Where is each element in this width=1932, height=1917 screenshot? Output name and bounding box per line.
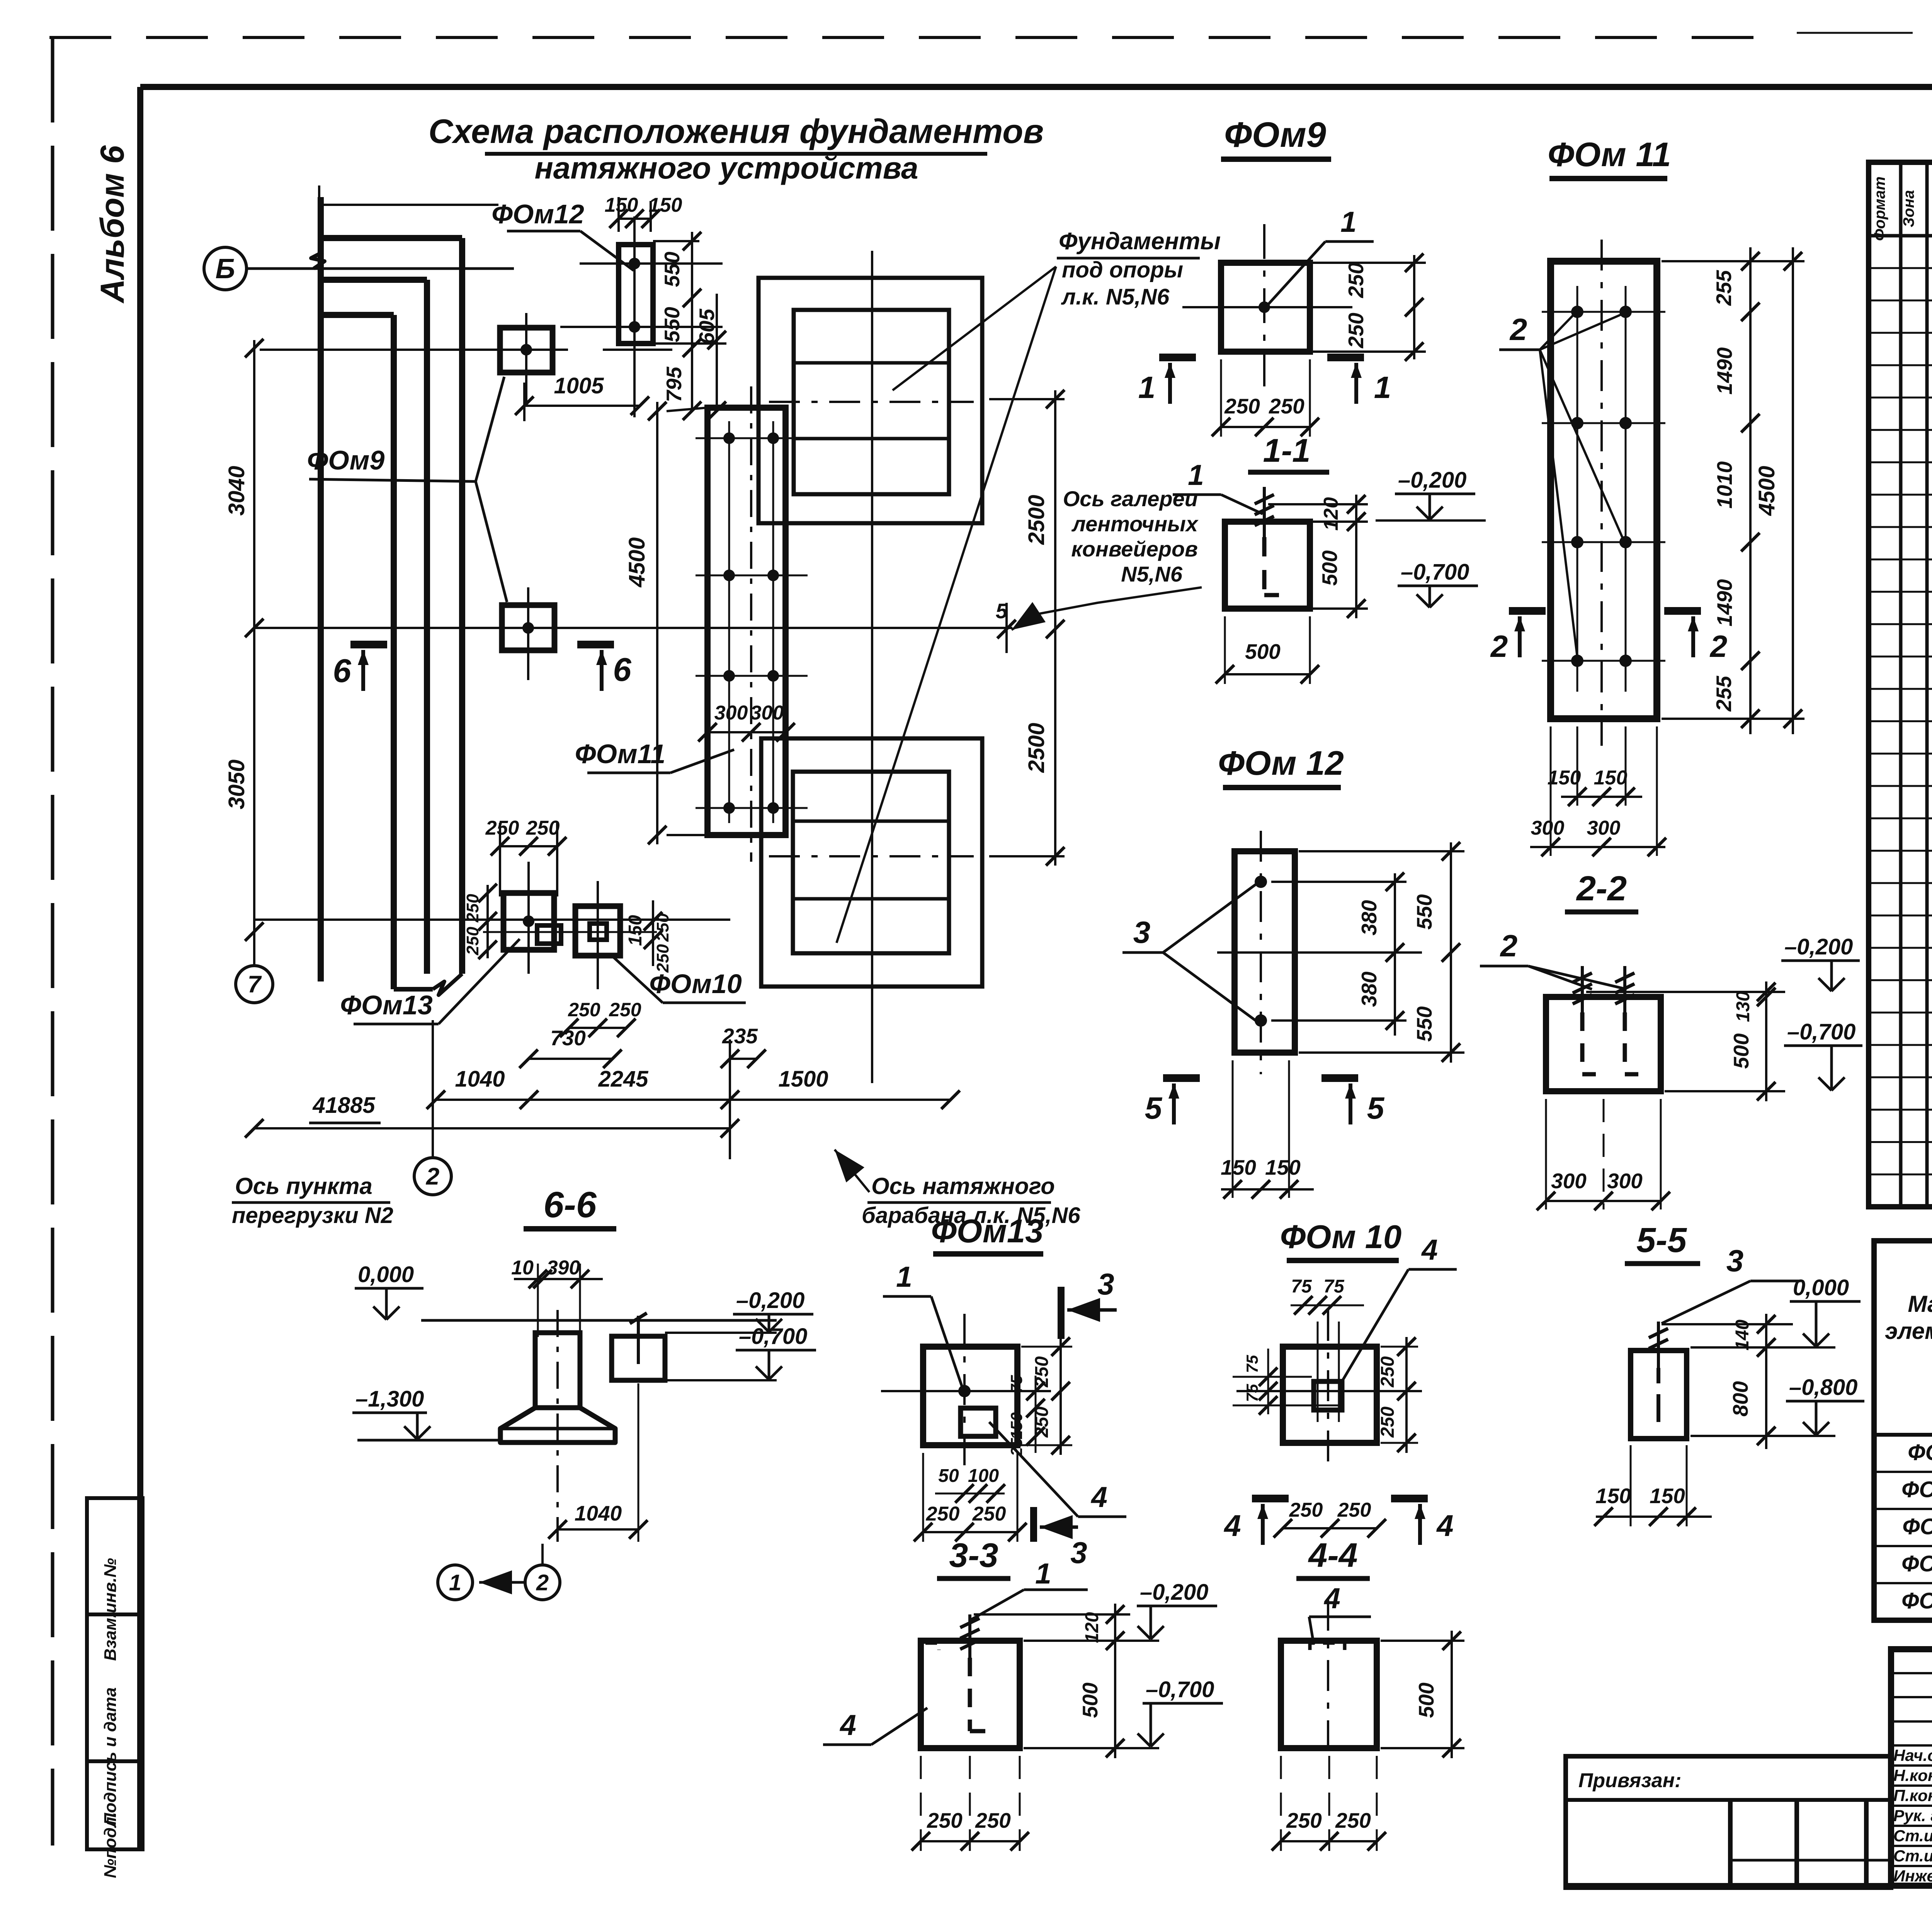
- FOm10: dims right 250 250: [1405, 1337, 1408, 1453]
- svg-text:1005: 1005: [554, 373, 604, 398]
- svg-text:1-1: 1-1: [1263, 432, 1311, 469]
- svg-text:№подл.: №подл.: [101, 1812, 120, 1878]
- page outer dashed border left: [51, 37, 54, 1846]
- svg-text:250: 250: [972, 1503, 1006, 1525]
- FOm10: section marks 4: [1252, 1495, 1289, 1502]
- svg-text:500: 500: [1078, 1682, 1102, 1718]
- FOm11: tall rect with 8 bolts: [1551, 261, 1657, 719]
- svg-text:Ось пункта: Ось пункта: [235, 1173, 372, 1199]
- svg-text:–0,200: –0,200: [1784, 934, 1853, 959]
- FOm12: dims right 380 380 550 550: [1394, 873, 1396, 1036]
- svg-text:ФОм12: ФОм12: [492, 199, 584, 229]
- svg-text:ФОм 12: ФОм 12: [1901, 1551, 1932, 1576]
- svg-text:Формат: Формат: [1871, 177, 1888, 241]
- 6-6: ground line 0.000: [421, 1319, 777, 1322]
- svg-text:2500: 2500: [1024, 495, 1049, 545]
- svg-text:250: 250: [1337, 1499, 1371, 1521]
- plan: support foundation centerline: [871, 251, 873, 1083]
- svg-text:4: 4: [1421, 1233, 1438, 1266]
- svg-text:ФОм 12: ФОм 12: [1218, 744, 1344, 782]
- svg-text:1: 1: [896, 1260, 912, 1293]
- svg-text:1: 1: [1138, 370, 1156, 405]
- svg-text:6: 6: [613, 651, 631, 688]
- 2-2: top line to levels: [1586, 991, 1785, 993]
- svg-text:Нач.отд.: Нач.отд.: [1893, 1746, 1932, 1764]
- svg-text:–0,200: –0,200: [1140, 1580, 1208, 1605]
- 6-6: anchor block right: [612, 1336, 665, 1380]
- 5-5: dim 140 800: [1765, 1314, 1767, 1449]
- svg-text:2: 2: [1509, 312, 1527, 347]
- svg-text:2: 2: [426, 1163, 439, 1190]
- svg-text:N5,N6: N5,N6: [1121, 562, 1183, 586]
- svg-text:150: 150: [1007, 1412, 1026, 1439]
- svg-text:4-4: 4-4: [1308, 1536, 1357, 1574]
- svg-text:4500: 4500: [624, 537, 650, 587]
- svg-text:4: 4: [1323, 1582, 1340, 1614]
- svg-text:1: 1: [449, 1570, 461, 1595]
- svg-text:550: 550: [1412, 1006, 1436, 1042]
- svg-text:250: 250: [1378, 1356, 1398, 1388]
- svg-text:250: 250: [485, 817, 519, 839]
- svg-text:500: 500: [1414, 1682, 1438, 1718]
- svg-text:10: 10: [511, 1257, 534, 1279]
- svg-text:550: 550: [660, 307, 684, 342]
- 5-5: elevation rect: [1631, 1351, 1687, 1439]
- svg-text:под опоры: под опоры: [1062, 257, 1183, 282]
- svg-text:1040: 1040: [455, 1067, 505, 1092]
- svg-text:150: 150: [1594, 767, 1628, 789]
- svg-text:2-2: 2-2: [1576, 869, 1627, 908]
- svg-text:150: 150: [649, 194, 682, 216]
- svg-text:0,000: 0,000: [1793, 1275, 1849, 1300]
- svg-text:1010: 1010: [1713, 461, 1736, 509]
- svg-text:элемента: элемента: [1885, 1318, 1932, 1344]
- svg-text:150: 150: [1221, 1155, 1256, 1179]
- plan: FOm10 square: [575, 906, 620, 956]
- svg-text:1500: 1500: [778, 1067, 828, 1092]
- svg-text:–0,700: –0,700: [739, 1324, 807, 1349]
- svg-text:250: 250: [1344, 313, 1368, 349]
- svg-text:150: 150: [605, 194, 638, 216]
- FOm13: dims right 75 150 25 / 250 250: [1035, 1376, 1037, 1453]
- 3-3: elevation square: [921, 1641, 1020, 1748]
- main drawing frame: [140, 84, 1932, 90]
- svg-text:3: 3: [1726, 1243, 1744, 1278]
- plan: FOm13 square: [503, 893, 554, 950]
- FOm11: section marks 2: [1509, 607, 1546, 615]
- svg-text:4: 4: [839, 1709, 856, 1741]
- svg-text:ФОм 11: ФОм 11: [1548, 135, 1671, 173]
- plan: building wall lines: [318, 197, 324, 981]
- svg-text:550: 550: [660, 252, 684, 287]
- svg-text:250: 250: [1032, 1356, 1052, 1388]
- plan: FOm9 lower square: [502, 605, 554, 650]
- svg-text:–0,700: –0,700: [1401, 560, 1469, 585]
- svg-text:Привязан:: Привязан:: [1578, 1769, 1681, 1792]
- svg-text:Взам.инв.№: Взам.инв.№: [101, 1558, 120, 1661]
- svg-text:ФОм 9: ФОм 9: [1908, 1440, 1932, 1465]
- svg-text:250: 250: [609, 999, 641, 1021]
- svg-text:250: 250: [1224, 394, 1260, 418]
- svg-text:75: 75: [1291, 1276, 1312, 1297]
- 1-1: anchor bolt hatch: [1263, 487, 1266, 537]
- svg-text:ФОм 13: ФОм 13: [1901, 1588, 1932, 1613]
- svg-text:Альбом 6: Альбом 6: [94, 145, 131, 304]
- svg-text:1: 1: [1188, 459, 1204, 491]
- svg-text:730: 730: [550, 1026, 586, 1050]
- plan: FOm9 upper square: [500, 328, 553, 373]
- svg-text:Схема расположения фундаментов: Схема расположения фундаментов: [429, 112, 1044, 150]
- svg-text:2: 2: [536, 1570, 549, 1595]
- svg-text:6-6: 6-6: [543, 1184, 597, 1225]
- svg-text:1: 1: [1374, 370, 1391, 405]
- plan: section marks 6-6: [350, 641, 387, 648]
- svg-text:250: 250: [927, 1808, 963, 1832]
- svg-text:150: 150: [1548, 767, 1581, 789]
- svg-text:–1,300: –1,300: [355, 1386, 424, 1412]
- plan: FOm12 dims right 550 550 605 795: [691, 232, 693, 411]
- svg-text:–0,800: –0,800: [1789, 1375, 1857, 1400]
- FOm11: dims right 255 1490 1010 1490 255 / 4500: [1749, 247, 1752, 734]
- svg-text:150: 150: [1265, 1155, 1301, 1179]
- svg-text:250: 250: [1335, 1808, 1371, 1832]
- svg-text:7: 7: [248, 971, 262, 998]
- svg-text:800: 800: [1728, 1381, 1752, 1417]
- svg-text:250: 250: [926, 1503, 960, 1525]
- plan: foundation FOm12 rect: [619, 245, 653, 344]
- svg-text:130: 130: [1733, 991, 1753, 1022]
- svg-text:1490: 1490: [1713, 579, 1736, 626]
- FOm10: plan square: [1283, 1347, 1377, 1443]
- svg-text:250: 250: [1032, 1407, 1052, 1438]
- svg-text:120: 120: [1320, 497, 1342, 531]
- svg-text:Марка: Марка: [1908, 1291, 1932, 1317]
- svg-text:380: 380: [1357, 900, 1381, 936]
- svg-text:250: 250: [1286, 1808, 1322, 1832]
- svg-text:0,000: 0,000: [358, 1262, 414, 1287]
- svg-text:2: 2: [1709, 629, 1728, 663]
- FOm9: dims right 250 250: [1413, 255, 1415, 359]
- plan: support foundation rect upper: [759, 278, 982, 523]
- svg-text:75: 75: [1323, 1276, 1345, 1297]
- svg-text:250: 250: [568, 999, 600, 1021]
- svg-text:ФОм13: ФОм13: [931, 1213, 1044, 1250]
- svg-text:250: 250: [1289, 1499, 1323, 1521]
- svg-text:перегрузки N2: перегрузки N2: [232, 1203, 393, 1228]
- svg-text:150: 150: [1595, 1484, 1631, 1508]
- privyazan box: [1566, 1756, 1891, 1888]
- svg-text:3: 3: [1133, 915, 1151, 949]
- svg-text:500: 500: [1245, 640, 1281, 663]
- svg-text:1: 1: [1340, 206, 1357, 238]
- left stamp column cells: [87, 1498, 143, 1614]
- svg-text:250: 250: [463, 894, 482, 923]
- svg-text:6: 6: [333, 653, 351, 689]
- svg-text:ФОм13: ФОм13: [340, 990, 433, 1020]
- svg-text:ФОм11: ФОм11: [575, 739, 665, 769]
- svg-text:3050: 3050: [224, 759, 249, 809]
- svg-text:300: 300: [1587, 817, 1621, 839]
- svg-text:2: 2: [1500, 929, 1518, 963]
- svg-text:550: 550: [1412, 894, 1436, 930]
- svg-text:1: 1: [1035, 1557, 1051, 1590]
- FOm13: section marks 3: [1058, 1287, 1065, 1339]
- plan: left dim chain 3040 3050: [253, 340, 255, 966]
- svg-text:5-5: 5-5: [1636, 1221, 1687, 1260]
- svg-text:5: 5: [1145, 1091, 1163, 1125]
- svg-text:Ось натяжного: Ось натяжного: [871, 1173, 1055, 1199]
- svg-text:150: 150: [625, 915, 646, 946]
- plan: axis line lower: [254, 919, 730, 921]
- svg-text:Подпись и дата: Подпись и дата: [101, 1687, 120, 1825]
- svg-text:235: 235: [722, 1024, 758, 1048]
- svg-text:390: 390: [547, 1257, 580, 1279]
- plan: axis Б: [204, 247, 247, 290]
- svg-text:250: 250: [653, 944, 672, 973]
- 4-4: dim 500: [1451, 1631, 1453, 1758]
- svg-text:795: 795: [662, 366, 686, 402]
- svg-text:2500: 2500: [1024, 723, 1049, 773]
- FOm12: rect: [1235, 851, 1295, 1053]
- svg-text:3: 3: [1070, 1536, 1087, 1570]
- svg-text:250: 250: [463, 927, 482, 956]
- svg-text:4: 4: [1090, 1481, 1107, 1513]
- 1-1: dim 120 / 500 right: [1355, 495, 1357, 618]
- svg-text:конвейеров: конвейеров: [1071, 537, 1198, 561]
- specification rows: [1869, 267, 1932, 269]
- svg-text:300: 300: [750, 702, 784, 724]
- svg-text:1040: 1040: [575, 1501, 622, 1525]
- svg-text:–0,700: –0,700: [1146, 1677, 1214, 1702]
- svg-text:ФОм 11: ФОм 11: [1902, 1514, 1932, 1539]
- plan: dim chain 2500 2500 right: [1054, 390, 1056, 866]
- 2-2: dim 130 500: [1765, 981, 1767, 1101]
- svg-text:605: 605: [695, 308, 719, 344]
- svg-text:3-3: 3-3: [949, 1536, 998, 1574]
- plan: axis line A (upper): [260, 349, 568, 351]
- svg-text:ФОм 10: ФОм 10: [1901, 1477, 1932, 1502]
- svg-text:380: 380: [1357, 971, 1381, 1007]
- svg-text:3: 3: [1097, 1267, 1114, 1301]
- svg-text:ленточных: ленточных: [1071, 512, 1199, 536]
- svg-text:л.к. N5,N6: л.к. N5,N6: [1061, 284, 1170, 310]
- steel table grid: [1874, 1241, 1932, 1620]
- svg-text:50: 50: [938, 1466, 959, 1486]
- svg-text:–0,700: –0,700: [1787, 1019, 1855, 1044]
- svg-text:3040: 3040: [224, 466, 249, 515]
- svg-text:2: 2: [1490, 629, 1508, 663]
- svg-text:Ось галереи: Ось галереи: [1063, 486, 1198, 511]
- svg-text:250: 250: [526, 817, 560, 839]
- svg-text:5: 5: [1367, 1091, 1385, 1125]
- svg-text:Зона: Зона: [1900, 190, 1917, 228]
- svg-text:75: 75: [1243, 1355, 1261, 1373]
- svg-text:300: 300: [1551, 1169, 1587, 1193]
- title block signature rows: [1891, 1672, 1932, 1674]
- svg-text:натяжного устройства: натяжного устройства: [534, 151, 918, 185]
- svg-text:150: 150: [1650, 1484, 1685, 1508]
- svg-text:ФОм 10: ФОм 10: [1280, 1219, 1402, 1255]
- svg-text:300: 300: [714, 702, 748, 724]
- FOm13: plan square: [923, 1347, 1017, 1445]
- svg-text:ФОм9: ФОм9: [307, 445, 385, 475]
- 6-6: axis circles 1 and 2: [438, 1565, 473, 1600]
- svg-text:П.констр.: П.констр.: [1893, 1786, 1932, 1805]
- svg-text:500: 500: [1318, 550, 1342, 586]
- plan: FOm11 rect with 8 bolts: [707, 408, 786, 835]
- svg-text:500: 500: [1729, 1033, 1753, 1069]
- svg-text:ФОм10: ФОм10: [649, 969, 742, 999]
- svg-text:1490: 1490: [1713, 347, 1736, 395]
- plan: dim row 1040 2245 1500: [436, 1099, 951, 1101]
- title block outer: [1891, 1649, 1932, 1886]
- svg-text:Фундаменты: Фундаменты: [1059, 228, 1221, 255]
- FOm9: plan square: [1221, 263, 1310, 352]
- plan: axis line middle: [255, 627, 1012, 629]
- svg-text:250: 250: [653, 913, 672, 942]
- svg-text:Поз.: Поз.: [1930, 194, 1932, 228]
- 6-6: centerline: [556, 1310, 559, 1542]
- svg-text:41885: 41885: [312, 1093, 375, 1118]
- svg-text:Ст.инж.: Ст.инж.: [1893, 1827, 1932, 1845]
- page outer dashed border top: [49, 36, 1777, 39]
- svg-text:250: 250: [1269, 394, 1304, 418]
- svg-text:120: 120: [1082, 1612, 1102, 1643]
- svg-text:250: 250: [1344, 262, 1368, 298]
- svg-text:Инжен.: Инжен.: [1893, 1867, 1932, 1885]
- 6-6: pedestal column: [535, 1333, 580, 1408]
- svg-text:300: 300: [1607, 1169, 1643, 1193]
- svg-text:ФОм9: ФОм9: [1224, 115, 1326, 155]
- plan: support foundation rect lower: [761, 738, 982, 987]
- svg-text:4: 4: [1436, 1509, 1453, 1543]
- 1-1: elevation square: [1225, 522, 1310, 609]
- svg-text:250: 250: [975, 1808, 1011, 1832]
- svg-text:Рук. гр.: Рук. гр.: [1893, 1806, 1932, 1825]
- svg-text:4500: 4500: [1754, 466, 1779, 516]
- svg-text:75: 75: [1007, 1375, 1026, 1393]
- svg-text:Б: Б: [216, 253, 235, 284]
- svg-text:2245: 2245: [598, 1067, 648, 1092]
- FOm9: section marks 1-1: [1159, 354, 1196, 361]
- 2-2: elevation rect: [1546, 997, 1661, 1091]
- specification table grid: [1869, 162, 1932, 1207]
- svg-text:255: 255: [1712, 270, 1736, 306]
- svg-text:100: 100: [968, 1466, 999, 1486]
- FOm12: section marks 5: [1163, 1074, 1200, 1082]
- svg-text:Н.контр.: Н.контр.: [1893, 1766, 1932, 1784]
- 3-3: dims 120 500: [1114, 1604, 1116, 1758]
- 4-4: elevation square: [1281, 1641, 1377, 1748]
- plan: axis circle 2: [414, 1158, 451, 1195]
- svg-text:250: 250: [1378, 1407, 1398, 1438]
- svg-text:–0,200: –0,200: [1398, 468, 1466, 493]
- svg-text:–0,200: –0,200: [736, 1288, 804, 1313]
- svg-text:300: 300: [1531, 817, 1565, 839]
- svg-text:255: 255: [1712, 675, 1736, 712]
- svg-text:4: 4: [1223, 1509, 1241, 1543]
- svg-text:Ст.инж.: Ст.инж.: [1893, 1847, 1932, 1865]
- plan: dim 4500 left of FOm11: [656, 402, 658, 844]
